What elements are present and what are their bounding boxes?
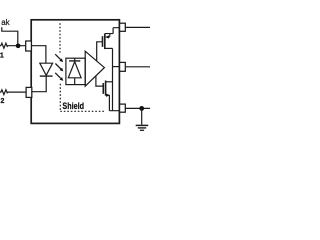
photodiode loop wiring [66,58,85,84]
light arrow 3 [55,73,61,79]
Q1 channel bar [104,34,106,50]
Q1 gate lead [97,42,102,62]
resistor R2 [0,90,26,95]
LED D1 [40,63,53,75]
pin VO [120,62,126,71]
wire VO pin out [125,66,150,68]
Q1 drain lead [105,47,113,49]
pin 2 (cathode) [26,87,32,97]
svg-text:1: 1 [0,53,4,60]
Q2 source arrow [106,94,110,97]
light arrow 1 [55,54,60,59]
pin 1 (anode) [26,41,32,51]
shield dashed line bottom [60,110,105,112]
svg-text:ak: ak [1,18,10,27]
wire LED cathode to pin2 [31,76,46,92]
LED cathode bar [40,75,53,77]
pin VEE [120,104,126,112]
amplifier A1 [85,51,104,86]
shield dashed line lower [59,84,61,112]
wire pin1 to LED anode [31,46,46,63]
svg-text:2: 2 [1,98,5,105]
wire VCC pin out [125,26,150,28]
resistor R1 [0,43,26,48]
Q1 source arrow [105,35,109,38]
shield dashed line upper [59,23,61,52]
photodiode D2 [69,60,80,62]
node junction dot [16,43,21,48]
svg-text:Shield: Shield [62,101,84,111]
package outline U1 [31,20,119,124]
Q2 drain lead [106,81,113,83]
pin VCC [120,23,126,31]
Q1 gate bar [102,36,104,47]
Q2 source lead [106,95,120,111]
light arrow 2 [55,64,60,69]
wire rail to VO pin [113,66,120,68]
Q2 gate bar [102,83,104,94]
Q1 source lead to VCC pin [105,34,113,37]
wire input loop top-left [2,27,18,46]
Q2 gate lead [96,76,103,86]
junction dot VEE [139,106,144,111]
output rail [112,48,114,110]
ground [141,108,143,124]
wire VEE pin out [125,107,150,109]
Q2 channel bar [105,81,107,96]
